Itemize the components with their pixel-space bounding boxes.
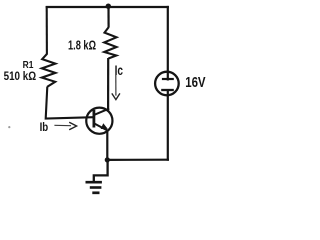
transistor NPN	[86, 108, 112, 134]
current arrow Ib	[54, 122, 76, 130]
wire right branch lower	[167, 91, 169, 161]
svg-text:1.8 kΩ: 1.8 kΩ	[68, 39, 96, 53]
node top junction	[106, 3, 111, 8]
current arrow Ic	[112, 75, 120, 100]
wire right branch upper	[167, 6, 169, 81]
svg-text:510 kΩ: 510 kΩ	[4, 69, 37, 83]
wire emitter branch	[106, 130, 108, 161]
svg-text:Ib: Ib	[40, 120, 49, 134]
resistor 1.8 kOhm zigzag	[104, 27, 116, 58]
ground	[86, 182, 102, 193]
wire left branch upper	[46, 6, 48, 55]
wire top rail	[46, 6, 169, 8]
wire middle branch upper	[107, 6, 109, 28]
node bottom junction	[105, 157, 110, 162]
wire left branch lower + base lead	[46, 87, 94, 119]
wire ground jog	[94, 160, 108, 181]
svg-text:16V: 16V	[185, 75, 206, 91]
wire collector branch	[107, 58, 109, 110]
wire bottom rail	[107, 159, 169, 161]
resistor R1 510 kOhm zigzag	[42, 54, 56, 87]
voltage source 16V	[155, 72, 179, 96]
